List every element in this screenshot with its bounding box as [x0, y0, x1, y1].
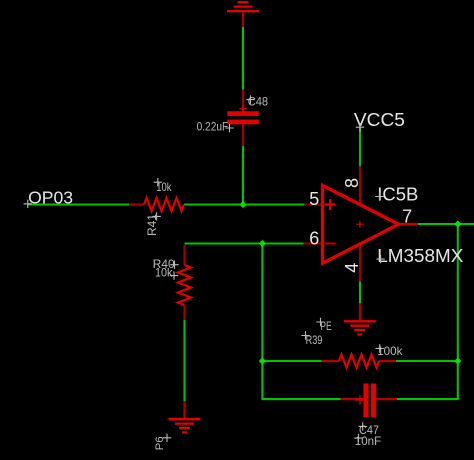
svg-text:LM358MX: LM358MX [377, 246, 463, 266]
svg-text:100k: 100k [377, 344, 403, 358]
svg-text:8: 8 [342, 178, 362, 188]
svg-text:0.22uF: 0.22uF [197, 122, 229, 134]
svg-text:5: 5 [309, 189, 319, 209]
svg-text:IC5B: IC5B [377, 184, 418, 204]
svg-text:7: 7 [402, 207, 412, 227]
svg-text:OP03: OP03 [28, 188, 73, 208]
svg-text:10k: 10k [155, 266, 173, 280]
svg-text:PE: PE [320, 319, 332, 333]
svg-text:4: 4 [342, 263, 362, 273]
svg-text:6: 6 [309, 229, 319, 249]
svg-text:P6: P6 [154, 436, 166, 450]
